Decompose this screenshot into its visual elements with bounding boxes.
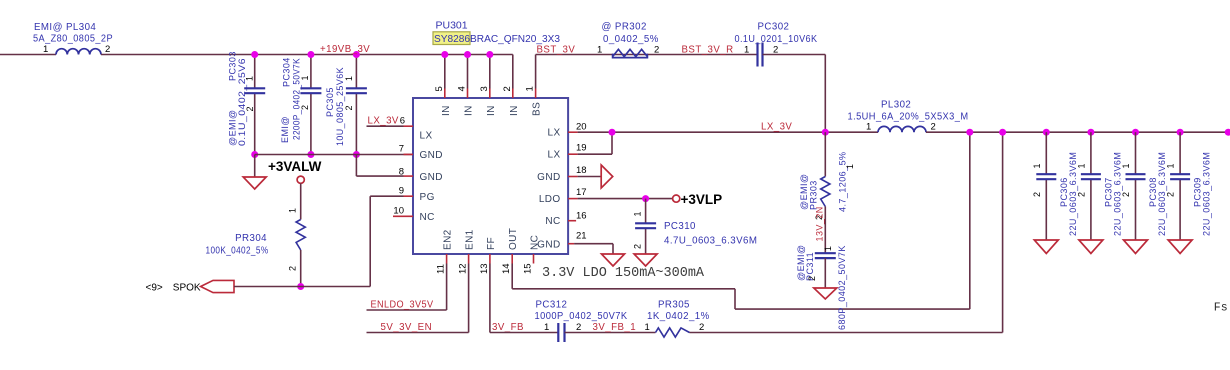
capacitor PC302 (756, 43, 758, 67)
svg-text:1: 1 (1166, 163, 1176, 168)
svg-text:NC: NC (420, 212, 435, 223)
wire EN1 net (468, 264, 470, 333)
svg-text:NC: NC (545, 216, 560, 227)
capacitor PC312 (557, 323, 559, 342)
svg-text:4: 4 (457, 86, 468, 91)
svg-text:3V_FB: 3V_FB (492, 322, 524, 333)
capacitor PC305 (346, 87, 367, 89)
ground PC306 (1034, 240, 1058, 254)
svg-text:LX_3V: LX_3V (761, 122, 792, 133)
junction LX rail/PC309 (1177, 129, 1184, 136)
capacitor PC303 (244, 87, 265, 89)
svg-text:5: 5 (434, 86, 445, 91)
svg-text:19: 19 (576, 143, 587, 154)
wire PC307 branch (1090, 132, 1092, 174)
svg-text:GND: GND (537, 240, 560, 251)
svg-text:3V_FB_1: 3V_FB_1 (593, 322, 637, 333)
svg-text:3.3V LDO 150mA~300mA: 3.3V LDO 150mA~300mA (542, 266, 705, 281)
svg-text:LX: LX (548, 150, 561, 161)
wire pin 4 (467, 55, 469, 89)
svg-text:PC304: PC304 (282, 57, 292, 87)
junction LX rail/PC306 (1043, 129, 1050, 136)
power circle +3VALW (297, 176, 304, 183)
junction LX rail right edge (1225, 129, 1230, 136)
wire BST_3V_R (648, 54, 758, 56)
svg-text:PU301: PU301 (436, 20, 468, 32)
svg-text:7: 7 (399, 144, 404, 155)
junction LX rail/PC308 (1132, 129, 1139, 136)
svg-text:9: 9 (399, 186, 404, 197)
svg-text:2: 2 (105, 44, 110, 55)
svg-text:GND: GND (420, 172, 443, 183)
svg-text:2: 2 (576, 322, 581, 333)
svg-text:1: 1 (823, 246, 833, 251)
capacitor PC310 (635, 222, 656, 224)
svg-text:+3VALW: +3VALW (268, 159, 322, 174)
wire PC305 branch (355, 55, 357, 89)
junction +19VB_3V/PC305 (353, 51, 360, 58)
wire LX_3V pin6 stub (367, 125, 404, 127)
wire pin 5 (444, 55, 446, 89)
wire +19VB_3V rail (101, 54, 513, 56)
wire PR303 to PC311 (824, 207, 826, 254)
svg-text:0.1U_0201_10V6K: 0.1U_0201_10V6K (735, 34, 818, 45)
svg-text:18: 18 (576, 165, 587, 176)
svg-text:21: 21 (576, 231, 587, 242)
svg-text:@ PR302: @ PR302 (602, 22, 647, 33)
wire PC309 branch (1179, 132, 1181, 174)
wire ground bus (255, 154, 413, 156)
svg-text:2: 2 (300, 105, 310, 110)
ground pin 18 (right) (601, 165, 613, 188)
svg-text:PC312: PC312 (536, 300, 568, 311)
wire pin 3 (489, 55, 491, 89)
svg-text:LX: LX (548, 128, 561, 139)
svg-text:EN1: EN1 (465, 229, 476, 250)
power circle +3VLP (673, 195, 680, 202)
svg-text:1: 1 (525, 86, 536, 91)
svg-text:2: 2 (502, 86, 513, 91)
svg-text:100K_0402_5%: 100K_0402_5% (206, 246, 269, 257)
svg-text:SY8286BRAC_QFN20_3X3: SY8286BRAC_QFN20_3X3 (434, 33, 560, 45)
wire LX to PR303 (824, 132, 826, 176)
svg-text:1K_0402_1%: 1K_0402_1% (647, 311, 710, 322)
svg-text:1: 1 (866, 122, 871, 133)
svg-text:IN: IN (464, 105, 475, 116)
junction LX rail/FB return (999, 129, 1006, 136)
pin 21 path (568, 243, 574, 245)
svg-text:PC310: PC310 (664, 221, 696, 232)
svg-text:BST_3V: BST_3V (537, 45, 576, 56)
svg-text:LX: LX (420, 131, 433, 142)
wire LDO net (578, 198, 673, 200)
pin 15 stub (533, 254, 535, 264)
resistor PR305 (656, 328, 690, 337)
svg-text:13: 13 (479, 263, 490, 274)
svg-text:5A_Z80_0805_2P: 5A_Z80_0805_2P (33, 34, 113, 45)
wire PC308 branch (1135, 132, 1137, 174)
capacitor PC309 (1170, 173, 1190, 175)
svg-text:EMI@: EMI@ (280, 116, 290, 143)
junction +19VB_3V/pin (486, 51, 493, 58)
svg-text:PG: PG (420, 192, 435, 203)
svg-text:2: 2 (1076, 192, 1086, 197)
svg-text:2: 2 (1166, 192, 1176, 197)
ground pin 21 (602, 254, 625, 266)
wire EN2 net (446, 264, 448, 311)
pin 12 stub (468, 254, 470, 264)
svg-text:+3VLP: +3VLP (681, 192, 723, 207)
svg-text:1: 1 (597, 45, 602, 56)
svg-text:IN: IN (509, 105, 520, 116)
svg-text:4.7_1206_5%: 4.7_1206_5% (838, 151, 848, 212)
wire LX_3V rail right (926, 131, 1230, 133)
svg-text:PC303: PC303 (228, 51, 238, 81)
svg-text:0_0402_5%: 0_0402_5% (603, 34, 659, 45)
svg-text:2: 2 (807, 276, 817, 281)
svg-text:EMI@ PL304: EMI@ PL304 (34, 22, 96, 33)
wire PC303 branch (254, 55, 256, 89)
svg-text:LDO: LDO (539, 194, 561, 205)
svg-text:15: 15 (523, 263, 534, 274)
svg-text:PR304: PR304 (235, 233, 267, 244)
inductor PL304 (56, 49, 101, 55)
svg-text:1: 1 (300, 75, 310, 80)
junction bus/PC303 (251, 151, 258, 158)
pin 6 stub (404, 125, 414, 127)
wire OUT net (511, 264, 513, 289)
svg-text:PR303: PR303 (808, 180, 818, 210)
resistor PR304 (296, 220, 305, 251)
wire FB rail b (565, 332, 656, 334)
svg-text:PL302: PL302 (881, 100, 911, 111)
svg-text:2: 2 (1121, 192, 1131, 197)
pin 13 stub (489, 254, 491, 264)
resistor PR302 (0 ohm) (610, 54, 648, 56)
svg-text:2: 2 (344, 105, 354, 110)
svg-text:GND: GND (537, 172, 560, 183)
svg-text:<9>: <9> (146, 283, 163, 294)
capacitor PC311 (815, 252, 836, 254)
svg-text:17: 17 (576, 187, 587, 198)
svg-text:PC302: PC302 (758, 22, 790, 33)
svg-text:ENLDO_3V5V: ENLDO_3V5V (371, 300, 434, 311)
svg-text:0.1U_0402_25V6: 0.1U_0402_25V6 (237, 58, 247, 146)
svg-text:2: 2 (288, 266, 298, 271)
junction bus/PC304 (307, 151, 314, 158)
pin 14 stub (511, 254, 513, 264)
svg-text:PR305: PR305 (658, 300, 690, 311)
svg-text:5V_3V_EN: 5V_3V_EN (381, 322, 433, 333)
svg-text:12: 12 (458, 263, 469, 274)
svg-text:LX_3V: LX_3V (368, 116, 399, 127)
svg-text:+19VB_3V: +19VB_3V (320, 44, 370, 55)
junction LX rail/PC307 (1087, 129, 1094, 136)
junction +19VB_3V/pin (464, 51, 471, 58)
svg-text:20: 20 (576, 122, 587, 133)
svg-text:2: 2 (633, 244, 643, 249)
svg-text:10: 10 (393, 206, 404, 217)
wire pin 8 riser (356, 175, 403, 177)
svg-text:SPOK: SPOK (173, 283, 201, 294)
capacitor PC304 (300, 87, 321, 89)
wire PR304 to SPOK rail (300, 250, 302, 287)
inductor PL302 (878, 126, 926, 132)
svg-text:2: 2 (699, 322, 704, 333)
svg-text:2: 2 (245, 106, 255, 111)
ground PC307 (1079, 240, 1103, 254)
svg-text:2: 2 (931, 122, 936, 133)
svg-text:16: 16 (576, 210, 587, 221)
junction bus/PC305 (353, 151, 360, 158)
pin 11 stub (446, 254, 448, 264)
svg-text:1: 1 (1121, 163, 1131, 168)
pin 10 stub (393, 215, 413, 217)
pin 2 stub (512, 89, 514, 99)
wire PC302 to LX (763, 54, 826, 56)
svg-text:1: 1 (645, 322, 650, 333)
resistor PR303 (821, 177, 830, 207)
pin 5 stub (444, 89, 446, 99)
junction +19VB_3V/pin (441, 51, 448, 58)
svg-text:IN: IN (441, 105, 452, 116)
svg-text:1: 1 (43, 44, 48, 55)
pin 20 stub (568, 131, 578, 133)
svg-text:1: 1 (344, 76, 354, 81)
ground PC310 (634, 254, 657, 266)
svg-text:Fs: Fs (1214, 302, 1228, 315)
wire SPOK rail (234, 286, 370, 288)
svg-text:BS: BS (532, 102, 543, 116)
pin 3 stub (489, 89, 491, 99)
svg-text:1000P_0402_50V7K: 1000P_0402_50V7K (535, 311, 628, 322)
wire PC311 to ground (824, 258, 826, 288)
wire ground stub (254, 155, 256, 178)
svg-text:BST_3V_R: BST_3V_R (682, 45, 734, 56)
svg-text:11: 11 (436, 264, 447, 274)
wire LX_3V rail (578, 131, 878, 133)
svg-text:EN2: EN2 (443, 229, 454, 250)
junction LX rail/OUT return (966, 129, 973, 136)
ground under PC303 bus (243, 177, 266, 189)
offpage connector SPOK (201, 280, 234, 292)
wire FB rail c (690, 332, 1003, 334)
svg-text:2200P_0402_50V7K: 2200P_0402_50V7K (292, 58, 302, 140)
svg-text:1: 1 (1076, 163, 1086, 168)
junction SPOK/PR304 (297, 283, 304, 290)
svg-text:2: 2 (1032, 192, 1042, 197)
svg-text:PC305: PC305 (325, 87, 335, 117)
svg-text:4.7U_0603_6.3V6M: 4.7U_0603_6.3V6M (664, 236, 757, 247)
svg-text:22U_0603_6.3V6M: 22U_0603_6.3V6M (1202, 152, 1212, 236)
svg-text:IN: IN (486, 105, 497, 116)
svg-text:GND: GND (420, 150, 443, 161)
svg-text:6: 6 (400, 116, 405, 127)
svg-text:1: 1 (744, 45, 749, 56)
pin 7 stub (404, 153, 414, 155)
svg-text:1: 1 (288, 208, 298, 213)
capacitor PC307 (1081, 173, 1101, 175)
junction +19VB_3V/PC304 (307, 51, 314, 58)
highlight SY8286 (433, 32, 470, 45)
svg-text:OUT: OUT (508, 228, 519, 250)
svg-text:1: 1 (544, 322, 549, 333)
svg-text:14: 14 (501, 263, 512, 274)
junction LX rail/pin19 (609, 129, 616, 136)
svg-text:FF: FF (486, 237, 497, 250)
svg-text:3: 3 (479, 86, 490, 91)
ic PU301 body (413, 98, 568, 254)
wire +19VB_3V input rail left (0, 54, 56, 56)
wire +3VALW to PR304 (300, 183, 302, 219)
svg-text:1: 1 (633, 211, 643, 216)
pin 18 stub (568, 176, 578, 178)
capacitor PC306 (1036, 173, 1056, 175)
wire PC306 branch (1045, 132, 1047, 174)
svg-text:@EMI@: @EMI@ (228, 109, 238, 146)
wire BS to BST_3V (535, 55, 537, 89)
pin 16 stub (568, 220, 576, 222)
svg-text:1: 1 (1032, 163, 1042, 168)
pin 1 stub (535, 89, 537, 99)
wire pin 2 (512, 55, 514, 89)
svg-text:NC: NC (530, 235, 541, 250)
ground PC308 (1124, 240, 1148, 254)
ground PC311 (814, 288, 837, 299)
wire pin 19 to rail (578, 153, 612, 155)
svg-text:13V_2N: 13V_2N (815, 206, 825, 241)
svg-text:680P_0402_50V7K: 680P_0402_50V7K (837, 245, 847, 330)
ground PC309 (1168, 240, 1192, 254)
wire PC310 branch (645, 199, 647, 224)
svg-text:1: 1 (245, 76, 255, 81)
pin 9 stub (404, 195, 414, 197)
junction LX rail/PC302 branch (822, 129, 829, 136)
wire PC304 branch (310, 55, 312, 89)
wire PG riser (369, 196, 371, 286)
pin 4 stub (467, 89, 469, 99)
pin 19 stub (568, 153, 578, 155)
svg-text:1: 1 (845, 164, 855, 169)
junction +19VB_3V/PC303 (251, 51, 258, 58)
wire FF to FB rail (489, 264, 491, 333)
pin 8 stub (404, 175, 414, 177)
capacitor PC308 (1126, 173, 1146, 175)
junction LDO/PC310 (642, 195, 649, 202)
wire FB rail a (490, 332, 558, 334)
pin 17 stub (568, 198, 578, 200)
